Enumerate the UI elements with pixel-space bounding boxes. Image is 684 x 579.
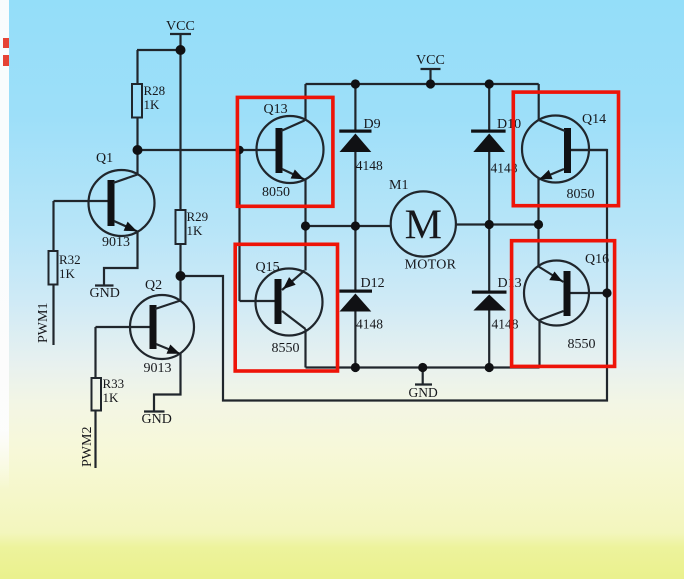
wire Q16 base to node [570, 292, 607, 294]
svg-text:9013: 9013 [102, 235, 130, 250]
svg-text:R28: R28 [144, 83, 166, 98]
wire Q1 base down to R32 [52, 201, 54, 251]
wire Q16 collector drop [538, 320, 540, 368]
node right mid D10/D13 [485, 220, 494, 229]
transistor Q2 [130, 295, 194, 359]
svg-text:8550: 8550 [568, 337, 596, 352]
wire left mid rail to motor [306, 225, 392, 227]
svg-text:4148: 4148 [356, 317, 383, 332]
node gnd rail stub [418, 363, 427, 372]
node Q2 collector [176, 271, 186, 281]
wire R28 bottom to node [136, 117, 138, 150]
wire rail drop to Q13 collector [304, 84, 306, 121]
svg-text:R29: R29 [187, 209, 209, 224]
svg-text:D13: D13 [498, 276, 522, 291]
node gnd rail D12 [351, 363, 360, 372]
resistor R29 [176, 210, 186, 244]
ground symbol Q1 [95, 284, 114, 286]
svg-text:MOTOR: MOTOR [405, 258, 457, 273]
ground symbol Q2 [144, 410, 165, 412]
VCC1 symbol [170, 33, 191, 35]
wire D9 column lower [354, 152, 356, 226]
resistor R28 [132, 84, 142, 118]
svg-text:GND: GND [409, 385, 438, 400]
resistor R33 [92, 378, 102, 411]
diode D13 [472, 291, 507, 311]
svg-text:M1: M1 [389, 178, 408, 193]
svg-text:D12: D12 [361, 276, 385, 291]
svg-text:Q1: Q1 [96, 151, 113, 166]
node Q16 base [602, 288, 611, 297]
node Q15 base branch [235, 146, 243, 154]
wire down to R28 [136, 50, 138, 84]
wire Q14 emitter node column [537, 178, 539, 267]
diode D9 [339, 130, 371, 153]
node left mid Q13/Q15 [301, 221, 310, 230]
wire Q2 collector [179, 276, 181, 301]
wire bottom GND rail [306, 366, 540, 368]
wire Q2 base down to R33 [94, 327, 96, 378]
wire D13 column lower [488, 311, 490, 369]
diode D12 [339, 290, 372, 312]
red highlight box Q16 [512, 241, 615, 367]
svg-text:PWM2: PWM2 [80, 427, 95, 467]
svg-text:Q15: Q15 [256, 260, 280, 275]
node right mid Q14/Q16 [534, 220, 543, 229]
svg-text:D10: D10 [497, 117, 521, 132]
svg-text:R32: R32 [59, 252, 81, 267]
svg-text:9013: 9013 [144, 361, 172, 376]
wire node to Q13 base [138, 149, 277, 151]
wire D10 column lower [488, 152, 490, 225]
svg-text:4148: 4148 [356, 158, 383, 173]
wire Q15 collector drop [304, 329, 306, 368]
diode D10 [471, 130, 506, 153]
svg-text:1K: 1K [144, 97, 161, 112]
wire Q2 emitter to GND [154, 354, 181, 412]
wire node at 240 down to Q15 base [238, 150, 240, 301]
svg-text:VCC: VCC [166, 19, 195, 34]
svg-text:VCC: VCC [416, 53, 445, 68]
ground symbol rail [422, 368, 424, 384]
svg-text:R33: R33 [103, 376, 125, 391]
wire Q2 collector to right bases (long loop) [181, 150, 608, 401]
wire VCC column down to R29 [179, 50, 181, 210]
wire Q13 emitter node column [304, 180, 306, 271]
wire Q2 base [96, 326, 152, 328]
svg-text:GND: GND [142, 412, 172, 427]
svg-text:4148: 4148 [492, 317, 519, 332]
wire D9 column upper [354, 84, 356, 131]
wire D12 column upper [354, 226, 356, 290]
wire D13 column upper [488, 225, 490, 292]
red highlight box Q14 [513, 92, 618, 206]
svg-text:8050: 8050 [262, 185, 290, 200]
transistor Q15 [256, 269, 323, 336]
node gnd rail D13 [485, 363, 494, 372]
node Q1 collector [133, 145, 143, 155]
wire R32 bottom / PWM1 lead [52, 285, 54, 346]
svg-text:Q13: Q13 [264, 102, 288, 117]
transistor Q1 [89, 170, 155, 236]
svg-text:PWM1: PWM1 [36, 303, 51, 343]
svg-text:D9: D9 [364, 117, 381, 132]
wire Q1 base [54, 200, 110, 202]
node left mid D9/D12 [351, 221, 360, 230]
node rail VCC2 [426, 79, 435, 88]
transistor Q13 [257, 116, 324, 183]
svg-text:Q14: Q14 [582, 112, 606, 127]
svg-text:8550: 8550 [272, 341, 300, 356]
motor M1 [391, 191, 456, 256]
VCC2 symbol [421, 68, 441, 70]
wire Q14 base [571, 149, 607, 151]
wire R33 bottom / PWM2 lead [94, 411, 96, 469]
wire VCC node to R28 branch [137, 49, 181, 51]
wire top VCC rail [306, 83, 539, 85]
wire rail drop to Q14 collector [538, 84, 540, 120]
wire Q1 emitter to GND [104, 232, 138, 286]
svg-text:Q16: Q16 [585, 252, 609, 267]
svg-text:1K: 1K [103, 390, 120, 405]
svg-text:GND: GND [90, 286, 120, 301]
wire right mid rail from motor [456, 223, 539, 225]
wire D10 column upper [488, 84, 490, 131]
wire Q1 collector [136, 150, 138, 175]
wire R29 bottom to Q2 collector node [179, 244, 181, 276]
node VCC1 [176, 45, 186, 55]
transistor Q16 [524, 261, 589, 326]
node rail D10 [485, 79, 494, 88]
node rail D9 [351, 79, 360, 88]
transistor Q14 [522, 116, 589, 183]
svg-text:1K: 1K [59, 266, 76, 281]
svg-text:M: M [405, 203, 442, 249]
wire D12 column lower [354, 312, 356, 369]
svg-text:Q2: Q2 [145, 278, 162, 293]
svg-text:1K: 1K [187, 223, 204, 238]
red mark 1 (left edge artifact) [3, 38, 9, 48]
red mark 2 (left edge artifact) [3, 55, 9, 66]
svg-text:8050: 8050 [567, 187, 595, 202]
resistor R32 [49, 251, 58, 285]
red highlight box Q13 [237, 97, 333, 206]
red highlight box Q15 [235, 244, 337, 371]
